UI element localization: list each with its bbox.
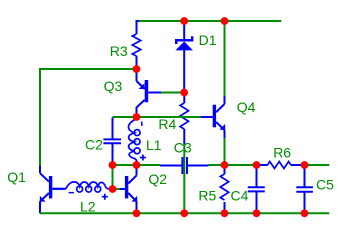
label R4: [158, 116, 176, 132]
resistor R5: [220, 165, 228, 213]
wire bottom rail: [40, 212, 329, 214]
label R3: [110, 43, 128, 59]
wire R4 to bottom rail: [183, 144, 185, 213]
wire L1 bottom to base node: [112, 165, 114, 189]
label C2: [85, 137, 103, 153]
transistor Q2 (NPN): [120, 165, 137, 213]
junction dot top rail Q4: [221, 17, 229, 25]
junction dot bottom rail C5: [301, 209, 309, 217]
label C3: [174, 140, 192, 156]
svg-text:R3: R3: [110, 43, 128, 59]
resistor R3: [132, 34, 140, 69]
diode D1 (zener): [175, 21, 193, 93]
junction dot Q3 collector: [133, 113, 141, 121]
junction dot D1 R4 node: [180, 89, 188, 97]
L2 polarity minus: [69, 192, 74, 194]
wire Q2 base: [113, 188, 121, 190]
capacitor C2: [103, 118, 121, 166]
label Q4: [237, 99, 256, 115]
svg-text:R6: R6: [273, 145, 291, 161]
wire left vertical: [39, 68, 41, 167]
wire mid rail left: [113, 164, 161, 166]
wire left horizontal: [40, 68, 137, 70]
svg-text:Q2: Q2: [148, 171, 167, 187]
svg-text:L1: L1: [146, 137, 162, 153]
junction dot bottom rail R4: [180, 209, 188, 217]
wire Q4 collector from top rail: [224, 21, 226, 97]
svg-text:Q4: Q4: [237, 99, 256, 115]
svg-text:Q1: Q1: [7, 169, 26, 185]
label D1: [199, 32, 217, 48]
junction dot Q2 base: [109, 185, 117, 193]
label L2: [80, 198, 96, 214]
wire Q4 emitter to mid rail: [224, 138, 226, 165]
label R6: [273, 145, 291, 161]
wire Q4 base: [137, 116, 202, 118]
capacitor C4: [248, 165, 265, 213]
transistor Q4 (NPN): [201, 96, 225, 138]
wire top rail: [137, 20, 281, 22]
label R5: [198, 187, 216, 203]
label C5: [316, 176, 334, 192]
label L1: [146, 137, 162, 153]
junction dot bottom rail C4: [253, 209, 261, 217]
svg-text:D1: D1: [199, 32, 217, 48]
label C4: [231, 187, 249, 203]
capacitor C3: [160, 157, 209, 174]
wire mid rail center: [209, 164, 257, 166]
svg-text:C4: C4: [231, 187, 249, 203]
label Q3: [104, 78, 123, 94]
inductor L1: [129, 119, 141, 163]
svg-text:Q3: Q3: [104, 78, 123, 94]
wire C2 branch horizontal: [113, 116, 137, 118]
label Q1: [7, 169, 26, 185]
wire Q3 base to D1 node: [161, 92, 184, 94]
resistor R4: [180, 93, 188, 146]
junction dot C4 top: [253, 161, 261, 169]
L2 polarity plus: [102, 194, 108, 200]
svg-text:L2: L2: [80, 198, 96, 214]
junction dot L1 bottom: [133, 161, 141, 169]
wire mid rail right: [305, 164, 330, 166]
capacitor C5: [296, 165, 313, 213]
junction dot R5 top: [221, 161, 229, 169]
junction dot R6 right: [301, 161, 309, 169]
junction dot top rail D1: [180, 17, 188, 25]
inductor L2: [52, 182, 112, 192]
svg-text:C2: C2: [85, 137, 103, 153]
transistor Q3 (PNP): [137, 68, 162, 117]
junction dot bottom rail R5: [221, 209, 229, 217]
wire R3 top corner: [137, 21, 140, 34]
svg-text:C5: C5: [316, 176, 334, 192]
label Q2: [148, 171, 167, 187]
resistor R6: [257, 162, 305, 169]
svg-text:R4: R4: [158, 116, 176, 132]
svg-text:R5: R5: [198, 187, 216, 203]
svg-text:C3: C3: [174, 140, 192, 156]
junction dot bottom rail Q2: [133, 209, 141, 217]
transistor Q1 (NPN): [40, 166, 63, 213]
L1 polarity plus: [140, 155, 146, 161]
junction dot R3 bottom: [133, 65, 141, 73]
junction dot C2 mid rail: [109, 161, 117, 169]
L1 polarity minus: [141, 122, 143, 126]
